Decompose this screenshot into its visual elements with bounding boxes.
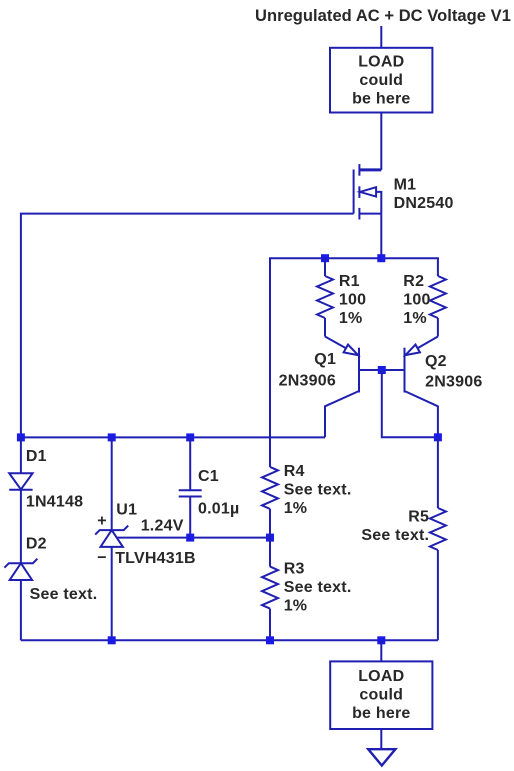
svg-text:R2: R2 xyxy=(403,273,424,290)
emitter wire xyxy=(417,337,438,349)
transistor Q2 (PNP) xyxy=(405,337,438,438)
base bar xyxy=(358,348,360,393)
wire top rail xyxy=(270,258,438,467)
capacitor C1 xyxy=(179,437,202,537)
svg-text:See text.: See text. xyxy=(284,482,352,499)
svg-text:be here: be here xyxy=(352,705,410,722)
junction left rail / gate net xyxy=(17,433,25,441)
zener diode D2 xyxy=(4,559,37,641)
svg-text:Unregulated AC + DC Voltage V1: Unregulated AC + DC Voltage V1 xyxy=(255,7,511,25)
svg-text:R3: R3 xyxy=(284,561,305,578)
svg-text:Q1: Q1 xyxy=(314,351,336,368)
wire gate net (M1 gate to left rail) xyxy=(21,214,354,438)
svg-text:could: could xyxy=(359,72,403,89)
svg-text:R1: R1 xyxy=(339,273,360,290)
svg-text:M1: M1 xyxy=(394,176,417,193)
resistor R1 xyxy=(317,258,333,336)
emitter arrow xyxy=(406,345,420,356)
junction U1 top xyxy=(108,433,116,441)
wire bottom rail to bottom load box xyxy=(380,640,382,661)
svg-text:be here: be here xyxy=(352,91,410,108)
drain stub xyxy=(359,168,381,171)
svg-text:100: 100 xyxy=(403,292,430,309)
svg-text:100: 100 xyxy=(339,292,366,309)
svg-text:U1: U1 xyxy=(116,502,137,519)
svg-text:Q2: Q2 xyxy=(425,353,447,370)
bottom load box xyxy=(330,661,432,729)
wire M1 source to top rail xyxy=(380,214,382,259)
gate bar xyxy=(353,170,355,214)
svg-text:could: could xyxy=(359,687,403,704)
junction R4/R3 xyxy=(266,534,274,542)
svg-text:C1: C1 xyxy=(198,468,219,485)
svg-text:1%: 1% xyxy=(284,500,308,517)
svg-text:R4: R4 xyxy=(284,463,305,480)
resistor R4 xyxy=(262,467,278,538)
junction C1 bottom xyxy=(186,534,194,542)
svg-text:1%: 1% xyxy=(339,310,363,327)
transistor M1 (depletion NMOS) xyxy=(354,164,382,219)
svg-text:TLVH431B: TLVH431B xyxy=(115,550,196,567)
emitter arrow xyxy=(344,345,358,356)
svg-text:2N3906: 2N3906 xyxy=(279,372,336,389)
channel segment bottom xyxy=(358,208,360,220)
resistor R2 xyxy=(430,276,446,337)
svg-text:LOAD: LOAD xyxy=(358,54,404,71)
transistor Q1 (PNP) xyxy=(325,337,359,438)
bulk arrow xyxy=(360,187,376,196)
svg-text:1N4148: 1N4148 xyxy=(26,493,83,510)
channel segment top xyxy=(358,164,360,176)
shunt reference U1 xyxy=(95,437,128,640)
svg-text:1%: 1% xyxy=(284,598,308,615)
svg-text:R5: R5 xyxy=(408,508,429,525)
bulk stub xyxy=(376,192,381,214)
wire load box to ground xyxy=(380,729,382,749)
svg-text:See text.: See text. xyxy=(30,586,98,603)
collector wire xyxy=(405,391,438,437)
junction bases xyxy=(378,366,386,374)
svg-text:1%: 1% xyxy=(403,310,427,327)
channel segment middle xyxy=(358,186,360,198)
resistor R3 xyxy=(262,538,278,641)
junction M1 source xyxy=(377,254,385,262)
wire title to top load box xyxy=(380,26,382,48)
svg-text:See text.: See text. xyxy=(361,527,429,544)
svg-text:0.01µ: 0.01µ xyxy=(198,500,239,517)
junction load wire xyxy=(377,636,385,644)
collector wire xyxy=(325,391,359,437)
wire left rail (D1/U1/C1/Q1 collector net) xyxy=(21,436,325,438)
base bar xyxy=(404,348,406,393)
junction C1 top xyxy=(186,433,194,441)
wire load box to M1 drain xyxy=(380,113,382,170)
source stub xyxy=(359,213,381,215)
wire bottom rail xyxy=(21,639,438,641)
svg-text:1.24V: 1.24V xyxy=(141,518,184,535)
svg-text:2N3906: 2N3906 xyxy=(425,373,482,390)
wire Q1 base to Q2 base xyxy=(359,369,405,371)
wire base net down and right to R5 top xyxy=(382,370,438,437)
top load box xyxy=(330,48,432,113)
svg-text:DN2540: DN2540 xyxy=(394,195,454,212)
emitter wire xyxy=(325,337,346,349)
svg-text:D2: D2 xyxy=(26,535,47,552)
junction R3 bottom xyxy=(266,636,274,644)
ground xyxy=(368,749,395,765)
svg-text:+: + xyxy=(97,512,107,529)
svg-text:−: − xyxy=(97,549,107,566)
junction U1 bottom xyxy=(108,636,116,644)
resistor R5 xyxy=(430,437,446,640)
wire ref net (U1 ref to R4/R3 junction) xyxy=(117,537,270,539)
junction R1 top xyxy=(321,254,329,262)
diode D1 xyxy=(9,437,32,563)
junction R5 top xyxy=(434,433,442,441)
svg-text:See text.: See text. xyxy=(284,579,352,596)
svg-text:LOAD: LOAD xyxy=(358,668,404,685)
svg-text:D1: D1 xyxy=(26,448,47,465)
